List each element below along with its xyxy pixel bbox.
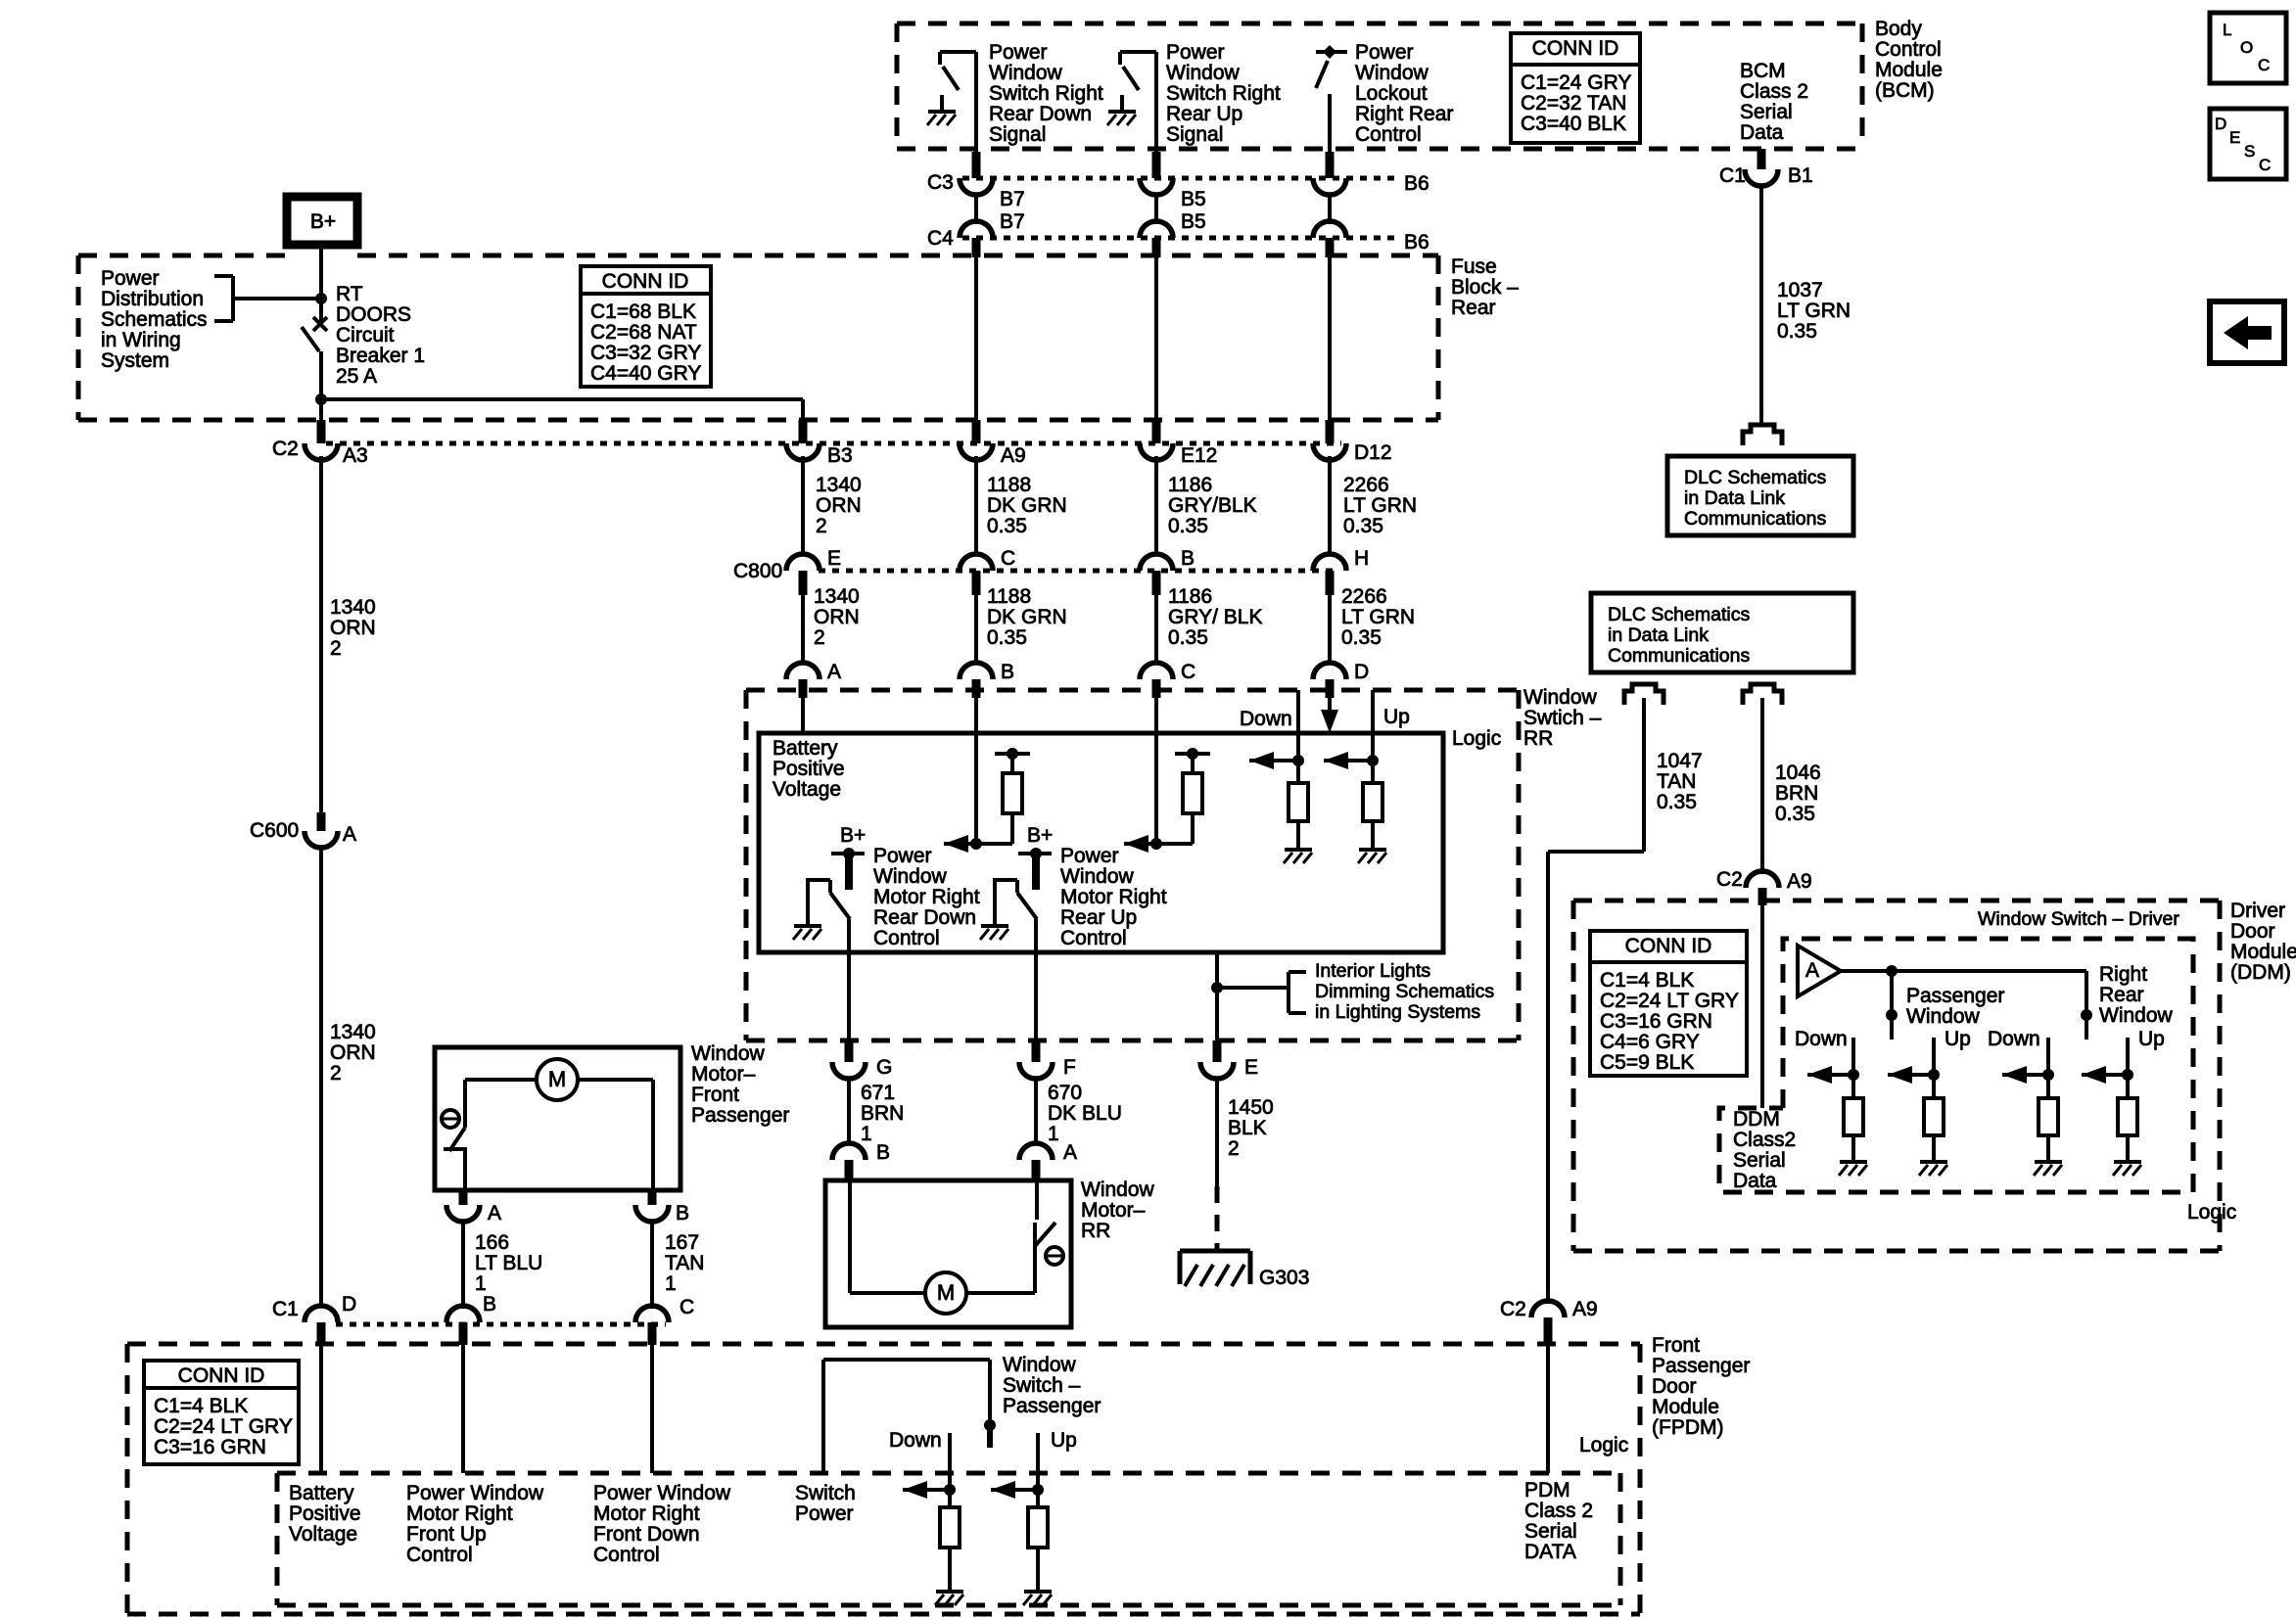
svg-text:0.35: 0.35: [1341, 626, 1382, 649]
svg-text:Power: Power: [1060, 845, 1119, 867]
svg-text:(DDM): (DDM): [2230, 961, 2291, 984]
svg-text:RT: RT: [336, 283, 363, 305]
svg-text:LT BLU: LT BLU: [475, 1252, 542, 1274]
svg-text:Front Up: Front Up: [406, 1523, 487, 1546]
svg-text:C: C: [679, 1296, 694, 1318]
svg-text:C4=6 GRY: C4=6 GRY: [1600, 1031, 1700, 1053]
svg-text:Door: Door: [1652, 1375, 1697, 1398]
svg-text:C2=24 LT GRY: C2=24 LT GRY: [154, 1415, 293, 1438]
svg-text:Serial: Serial: [1524, 1520, 1577, 1543]
svg-text:BRN: BRN: [861, 1102, 904, 1125]
svg-text:Signal: Signal: [989, 123, 1046, 146]
svg-text:Control: Control: [406, 1544, 473, 1566]
svg-text:Module: Module: [1652, 1396, 1719, 1418]
svg-text:Right: Right: [2099, 963, 2147, 986]
svg-text:Rear Down: Rear Down: [989, 103, 1092, 125]
svg-text:DDM: DDM: [1733, 1108, 1780, 1131]
svg-text:Down: Down: [1795, 1028, 1848, 1050]
svg-text:Control: Control: [873, 927, 940, 949]
svg-text:0.35: 0.35: [1168, 626, 1208, 649]
svg-text:Down: Down: [1240, 708, 1292, 730]
svg-text:25 A: 25 A: [336, 365, 377, 388]
svg-text:PDM: PDM: [1524, 1479, 1570, 1501]
svg-text:B+: B+: [310, 210, 336, 233]
svg-text:O: O: [2240, 38, 2253, 57]
svg-text:Interior Lights: Interior Lights: [1315, 960, 1430, 982]
svg-text:Serial: Serial: [1740, 101, 1793, 123]
svg-text:A9: A9: [1001, 444, 1026, 467]
svg-text:C3: C3: [927, 171, 954, 194]
svg-text:1450: 1450: [1228, 1096, 1274, 1119]
svg-text:166: 166: [475, 1231, 509, 1254]
svg-text:0.35: 0.35: [1777, 320, 1817, 343]
svg-text:LT GRN: LT GRN: [1341, 606, 1415, 628]
svg-text:Motor Right: Motor Right: [406, 1502, 513, 1525]
svg-text:1: 1: [475, 1272, 487, 1295]
svg-text:Class 2: Class 2: [1740, 80, 1808, 103]
svg-text:B: B: [676, 1202, 689, 1224]
svg-text:2266: 2266: [1343, 474, 1389, 496]
svg-text:Passenger: Passenger: [691, 1104, 789, 1127]
svg-text:C3=40 BLK: C3=40 BLK: [1521, 113, 1626, 135]
svg-text:A: A: [1805, 959, 1819, 982]
svg-text:CONN ID: CONN ID: [178, 1364, 265, 1387]
svg-text:Window: Window: [1906, 1005, 1981, 1028]
svg-text:DLC Schematics: DLC Schematics: [1608, 604, 1750, 625]
svg-text:C1=4 BLK: C1=4 BLK: [154, 1395, 248, 1417]
svg-text:2: 2: [814, 626, 825, 649]
svg-text:LT GRN: LT GRN: [1777, 300, 1851, 322]
svg-text:Logic: Logic: [1579, 1434, 1628, 1456]
svg-text:C4: C4: [927, 227, 954, 250]
svg-text:Swtich –: Swtich –: [1523, 707, 1602, 729]
svg-text:Control: Control: [1060, 927, 1127, 949]
svg-text:Power: Power: [795, 1502, 854, 1525]
svg-text:B: B: [876, 1141, 890, 1164]
svg-text:Schematics: Schematics: [101, 308, 208, 331]
svg-text:Control: Control: [1355, 123, 1422, 146]
svg-text:BLK: BLK: [1228, 1117, 1267, 1139]
svg-text:C: C: [1001, 547, 1015, 570]
svg-text:in Lighting Systems: in Lighting Systems: [1315, 1001, 1480, 1023]
svg-text:Window: Window: [1523, 686, 1598, 709]
svg-text:Power Window: Power Window: [406, 1482, 544, 1504]
svg-text:DLC Schematics: DLC Schematics: [1684, 467, 1826, 488]
svg-text:Down: Down: [889, 1429, 942, 1452]
svg-text:Window: Window: [1355, 62, 1429, 84]
svg-text:C5=9 BLK: C5=9 BLK: [1600, 1051, 1694, 1074]
svg-text:Positive: Positive: [289, 1502, 361, 1525]
svg-text:B+: B+: [840, 824, 866, 847]
svg-text:C1=4 BLK: C1=4 BLK: [1600, 969, 1694, 992]
svg-text:Data: Data: [1740, 121, 1784, 144]
svg-text:Passenger: Passenger: [1652, 1355, 1750, 1377]
svg-text:C2=24 LT GRY: C2=24 LT GRY: [1600, 990, 1739, 1012]
svg-text:Serial: Serial: [1733, 1149, 1786, 1172]
svg-text:Voltage: Voltage: [289, 1523, 357, 1546]
svg-text:A: A: [1063, 1141, 1077, 1164]
svg-text:C2=32 TAN: C2=32 TAN: [1521, 92, 1626, 115]
svg-text:Class2: Class2: [1733, 1129, 1796, 1151]
svg-text:DK GRN: DK GRN: [987, 494, 1067, 517]
svg-text:C2=68 NAT: C2=68 NAT: [590, 321, 697, 344]
svg-text:B+: B+: [1027, 824, 1053, 847]
svg-text:G: G: [876, 1056, 892, 1079]
svg-text:Positive: Positive: [773, 758, 845, 780]
svg-text:C3=32 GRY: C3=32 GRY: [590, 342, 701, 364]
svg-text:1188: 1188: [987, 474, 1031, 496]
svg-text:Driver: Driver: [2230, 900, 2285, 922]
svg-text:Window: Window: [691, 1042, 766, 1065]
svg-text:2266: 2266: [1341, 585, 1387, 608]
svg-text:Logic: Logic: [1452, 727, 1501, 750]
svg-text:Control: Control: [1875, 38, 1942, 61]
svg-text:Passenger: Passenger: [1906, 985, 2004, 1007]
svg-text:C800: C800: [733, 560, 782, 582]
svg-text:Power: Power: [1355, 41, 1414, 64]
svg-text:1: 1: [665, 1272, 677, 1295]
svg-text:2: 2: [1228, 1137, 1240, 1160]
svg-text:C3=16 GRN: C3=16 GRN: [1600, 1010, 1712, 1033]
svg-text:GRY/ BLK: GRY/ BLK: [1168, 606, 1263, 628]
svg-text:A9: A9: [1787, 870, 1812, 893]
svg-text:1340: 1340: [814, 585, 860, 608]
svg-text:Communications: Communications: [1684, 508, 1826, 530]
svg-text:B6: B6: [1404, 231, 1429, 254]
svg-text:Lockout: Lockout: [1355, 82, 1428, 105]
svg-text:Communications: Communications: [1608, 645, 1750, 667]
svg-text:Battery: Battery: [289, 1482, 354, 1504]
svg-text:Rear: Rear: [2099, 984, 2144, 1006]
svg-text:BCM: BCM: [1740, 60, 1786, 82]
svg-text:A: A: [488, 1202, 501, 1224]
svg-text:B3: B3: [827, 444, 853, 467]
svg-text:B: B: [1001, 661, 1014, 683]
svg-text:Window: Window: [1003, 1354, 1077, 1376]
svg-text:Down: Down: [1988, 1028, 2040, 1050]
svg-text:Module: Module: [2230, 941, 2296, 963]
svg-text:CONN ID: CONN ID: [1625, 935, 1712, 957]
svg-text:C1=24 GRY: C1=24 GRY: [1521, 71, 1631, 94]
svg-text:Up: Up: [2138, 1028, 2165, 1050]
svg-text:0.35: 0.35: [1168, 515, 1208, 537]
svg-text:Control: Control: [593, 1544, 660, 1566]
svg-text:Window: Window: [989, 62, 1063, 84]
svg-text:1340: 1340: [330, 596, 376, 619]
svg-text:in Data Link: in Data Link: [1608, 624, 1709, 646]
svg-text:L: L: [2223, 21, 2231, 39]
svg-text:Voltage: Voltage: [773, 778, 841, 801]
svg-text:Logic: Logic: [2187, 1201, 2236, 1224]
svg-text:(FPDM): (FPDM): [1652, 1416, 1723, 1439]
svg-text:Class 2: Class 2: [1524, 1500, 1593, 1522]
svg-text:B6: B6: [1404, 172, 1429, 195]
svg-text:B5: B5: [1181, 188, 1206, 210]
svg-text:Fuse: Fuse: [1451, 255, 1497, 278]
svg-text:Motor–: Motor–: [691, 1063, 756, 1086]
svg-text:RR: RR: [1523, 727, 1553, 750]
svg-text:LT GRN: LT GRN: [1343, 494, 1417, 517]
svg-text:S: S: [2244, 142, 2255, 161]
svg-text:Power Window: Power Window: [593, 1482, 731, 1504]
svg-text:C3=16 GRN: C3=16 GRN: [154, 1436, 266, 1458]
svg-text:2: 2: [330, 637, 342, 660]
svg-text:Door: Door: [2230, 920, 2275, 943]
svg-text:RR: RR: [1081, 1220, 1110, 1242]
svg-text:C: C: [2259, 156, 2271, 174]
svg-text:E: E: [2229, 128, 2240, 147]
svg-text:Rear Down: Rear Down: [873, 906, 976, 929]
svg-text:in Wiring: in Wiring: [101, 329, 181, 351]
svg-text:1186: 1186: [1168, 474, 1212, 496]
svg-text:CONN ID: CONN ID: [1532, 37, 1619, 60]
svg-text:Up: Up: [1051, 1429, 1077, 1452]
svg-text:0.35: 0.35: [987, 626, 1027, 649]
svg-text:D12: D12: [1354, 441, 1392, 464]
svg-text:Window Switch – Driver: Window Switch – Driver: [1978, 908, 2179, 930]
svg-text:DOORS: DOORS: [336, 303, 411, 326]
svg-text:E: E: [1244, 1056, 1258, 1079]
svg-text:1047: 1047: [1657, 750, 1703, 772]
svg-text:GRY/BLK: GRY/BLK: [1168, 494, 1257, 517]
svg-text:Window: Window: [1060, 865, 1135, 888]
svg-text:Window: Window: [2099, 1004, 2174, 1027]
svg-text:1046: 1046: [1775, 762, 1821, 784]
svg-text:Distribution: Distribution: [101, 288, 204, 310]
svg-text:C: C: [1181, 661, 1195, 683]
svg-text:Battery: Battery: [773, 737, 838, 760]
svg-text:C600: C600: [250, 819, 299, 842]
svg-text:1340: 1340: [816, 474, 862, 496]
svg-text:0.35: 0.35: [1657, 791, 1697, 813]
svg-text:Breaker 1: Breaker 1: [336, 345, 425, 367]
svg-text:in Data Link: in Data Link: [1684, 487, 1785, 509]
svg-text:B: B: [483, 1293, 496, 1316]
svg-text:G303: G303: [1259, 1267, 1309, 1289]
svg-text:1186: 1186: [1168, 585, 1212, 608]
svg-text:1188: 1188: [987, 585, 1031, 608]
svg-text:TAN: TAN: [665, 1252, 704, 1274]
svg-text:Power: Power: [1166, 41, 1225, 64]
svg-text:0.35: 0.35: [987, 515, 1027, 537]
svg-text:2: 2: [816, 515, 827, 537]
svg-text:1340: 1340: [330, 1021, 376, 1043]
svg-text:2: 2: [330, 1062, 342, 1085]
svg-text:Switch: Switch: [795, 1482, 856, 1504]
svg-text:Signal: Signal: [1166, 123, 1223, 146]
svg-text:B5: B5: [1181, 210, 1206, 233]
svg-text:Module: Module: [1875, 59, 1943, 81]
svg-text:CONN ID: CONN ID: [602, 270, 689, 293]
svg-text:BRN: BRN: [1775, 782, 1818, 805]
svg-text:Motor–: Motor–: [1081, 1199, 1146, 1222]
svg-text:167: 167: [665, 1231, 699, 1254]
svg-text:DK GRN: DK GRN: [987, 606, 1067, 628]
svg-text:M: M: [937, 1280, 955, 1305]
svg-text:C4=40 GRY: C4=40 GRY: [590, 362, 701, 385]
svg-text:0.35: 0.35: [1343, 515, 1383, 537]
svg-text:(BCM): (BCM): [1875, 79, 1935, 102]
svg-text:F: F: [1063, 1056, 1076, 1079]
svg-text:H: H: [1354, 547, 1369, 570]
svg-text:Body: Body: [1875, 18, 1922, 40]
svg-text:C2: C2: [1500, 1298, 1526, 1320]
svg-text:Switch –: Switch –: [1003, 1374, 1081, 1397]
svg-text:Power: Power: [101, 267, 160, 290]
svg-text:B7: B7: [1000, 210, 1025, 233]
svg-text:E12: E12: [1181, 444, 1217, 467]
svg-text:Circuit: Circuit: [336, 324, 395, 346]
svg-text:Rear Up: Rear Up: [1060, 906, 1137, 929]
svg-text:671: 671: [861, 1082, 895, 1104]
svg-text:ORN: ORN: [814, 606, 860, 628]
svg-text:Dimming Schematics: Dimming Schematics: [1315, 981, 1494, 1002]
svg-text:1037: 1037: [1777, 279, 1823, 301]
svg-text:Passenger: Passenger: [1003, 1395, 1101, 1417]
svg-text:Motor Right: Motor Right: [593, 1502, 700, 1525]
svg-text:Up: Up: [1383, 706, 1410, 728]
svg-text:Motor Right: Motor Right: [1060, 886, 1167, 908]
svg-text:C2: C2: [272, 438, 299, 460]
svg-text:D: D: [342, 1293, 356, 1316]
svg-text:Front Down: Front Down: [593, 1523, 700, 1546]
svg-text:Block –: Block –: [1451, 276, 1519, 299]
svg-text:DATA: DATA: [1524, 1541, 1576, 1563]
svg-text:Window: Window: [1166, 62, 1241, 84]
svg-text:Window: Window: [873, 865, 948, 888]
svg-text:C1=68 BLK: C1=68 BLK: [590, 300, 696, 323]
svg-text:D: D: [1354, 661, 1369, 683]
svg-text:A9: A9: [1572, 1298, 1598, 1320]
svg-text:Switch Right: Switch Right: [989, 82, 1103, 105]
svg-text:Rear Up: Rear Up: [1166, 103, 1242, 125]
svg-text:B: B: [1181, 547, 1195, 570]
svg-text:Power: Power: [873, 845, 932, 867]
svg-text:D: D: [2215, 115, 2226, 133]
svg-text:ORN: ORN: [330, 617, 376, 639]
svg-text:0.35: 0.35: [1775, 803, 1815, 825]
svg-text:670: 670: [1048, 1082, 1082, 1104]
svg-text:Motor Right: Motor Right: [873, 886, 980, 908]
svg-text:Right Rear: Right Rear: [1355, 103, 1453, 125]
svg-text:M: M: [548, 1067, 566, 1091]
svg-text:Rear: Rear: [1451, 297, 1496, 319]
svg-text:TAN: TAN: [1657, 770, 1696, 793]
svg-text:Up: Up: [1945, 1028, 1971, 1050]
svg-text:ORN: ORN: [330, 1041, 376, 1064]
svg-text:Switch Right: Switch Right: [1166, 82, 1281, 105]
svg-text:System: System: [101, 349, 169, 372]
svg-text:ORN: ORN: [816, 494, 862, 517]
svg-text:A: A: [343, 823, 356, 846]
svg-text:Power: Power: [989, 41, 1048, 64]
svg-text:Front: Front: [1652, 1334, 1700, 1357]
svg-text:1: 1: [1048, 1123, 1059, 1145]
svg-text:DK BLU: DK BLU: [1048, 1102, 1122, 1125]
svg-text:C1: C1: [272, 1298, 299, 1320]
svg-text:1: 1: [861, 1123, 872, 1145]
svg-text:B7: B7: [1000, 188, 1025, 210]
svg-text:B1: B1: [1788, 164, 1813, 187]
svg-text:A3: A3: [343, 444, 368, 467]
svg-text:C1: C1: [1719, 164, 1746, 187]
svg-text:A: A: [827, 661, 841, 683]
svg-text:Front: Front: [691, 1084, 739, 1106]
svg-text:C2: C2: [1716, 868, 1743, 891]
svg-text:C: C: [2258, 56, 2270, 74]
svg-text:Data: Data: [1733, 1170, 1777, 1192]
svg-text:E: E: [827, 547, 841, 570]
svg-text:Window: Window: [1081, 1178, 1155, 1201]
